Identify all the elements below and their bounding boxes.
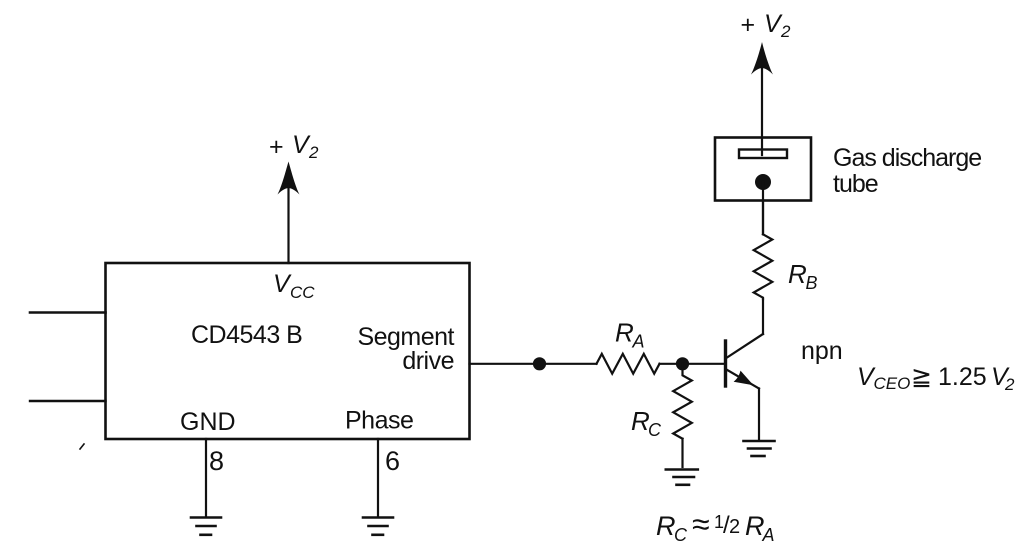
resistor RC <box>673 364 692 439</box>
input wire 1 <box>30 311 106 314</box>
wire GND pin to ground <box>205 439 207 516</box>
gas discharge tube: inner dot electrode <box>755 174 771 190</box>
pin label VCC <box>273 270 315 302</box>
svg-text:+: + <box>269 133 284 161</box>
svg-text:CD4543 B: CD4543 B <box>191 321 302 349</box>
label Gas discharge tube <box>833 144 981 198</box>
svg-text:6: 6 <box>385 446 400 476</box>
gas discharge tube: inner electrode bar <box>739 150 787 159</box>
svg-text:drive: drive <box>402 347 454 375</box>
transistor Q1 emitter arrow <box>734 371 754 386</box>
ground (emitter) <box>744 441 775 456</box>
power +V2 (right) arrow <box>751 42 773 75</box>
label RC <box>631 406 662 440</box>
svg-text:CC: CC <box>290 283 315 302</box>
svg-text:tube: tube <box>833 170 878 198</box>
svg-text:C: C <box>648 420 662 440</box>
transistor Q1 collector diagonal <box>726 334 764 359</box>
note VCEO >= 1.25 V2 <box>857 363 1015 394</box>
input wire 2 <box>30 400 106 402</box>
power +V2 (left) arrow <box>278 162 300 195</box>
svg-text:Gas discharge: Gas discharge <box>833 144 981 172</box>
svg-text:2: 2 <box>780 22 791 41</box>
svg-text:npn: npn <box>801 337 843 365</box>
svg-text:C: C <box>674 525 688 545</box>
svg-text:+: + <box>741 11 756 39</box>
svg-text:B: B <box>806 273 818 293</box>
ground (RC) <box>666 470 698 485</box>
wire RC to ground <box>681 439 683 467</box>
junction node 2 <box>676 357 689 370</box>
svg-text:Phase: Phase <box>345 407 413 435</box>
svg-text:GND: GND <box>180 408 236 436</box>
power +V2 (left) label <box>269 131 319 162</box>
svg-text:R: R <box>788 259 807 289</box>
power +V2 (right) label <box>741 10 792 41</box>
IC U1 CD4543B box <box>106 263 470 439</box>
wire tube dot down to RB <box>762 182 764 234</box>
label RB <box>788 259 818 293</box>
svg-text:A: A <box>762 525 775 545</box>
wire RB to tube <box>762 201 764 235</box>
svg-text:A: A <box>632 332 645 352</box>
ground (GND pin) <box>191 518 221 535</box>
wire +V2 into tube <box>761 66 763 155</box>
wire Phase pin to ground <box>377 439 379 516</box>
svg-text:2: 2 <box>308 143 319 162</box>
svg-text:CEO: CEO <box>874 374 911 393</box>
pin label Segment drive <box>357 323 454 375</box>
resistor RA <box>597 354 660 374</box>
wire emitter to ground <box>758 389 760 440</box>
svg-text:2: 2 <box>729 516 740 538</box>
gas discharge tube V1: box <box>715 138 811 201</box>
wire VCC supply to IC box <box>287 185 289 263</box>
ground (Phase pin) <box>363 518 393 535</box>
note RC approx half RA <box>656 506 775 545</box>
svg-text:R: R <box>615 318 634 348</box>
svg-text:R: R <box>631 406 650 436</box>
wire collector to RB <box>762 299 764 334</box>
svg-text:2: 2 <box>1004 375 1015 394</box>
svg-text:1.25: 1.25 <box>938 363 987 391</box>
svg-text:≈: ≈ <box>692 506 710 542</box>
svg-text:8: 8 <box>209 446 224 476</box>
wire segment drive: box to RA <box>470 363 597 365</box>
junction node 1 <box>533 357 546 370</box>
transistor Q1 npn: base bar <box>724 341 727 386</box>
transistor Q1 emitter diagonal <box>726 369 760 389</box>
wire RA to base <box>660 363 726 365</box>
svg-text:≧: ≧ <box>911 363 932 391</box>
label RA <box>615 318 645 352</box>
resistor RB <box>754 234 773 299</box>
svg-text:R: R <box>656 511 676 541</box>
